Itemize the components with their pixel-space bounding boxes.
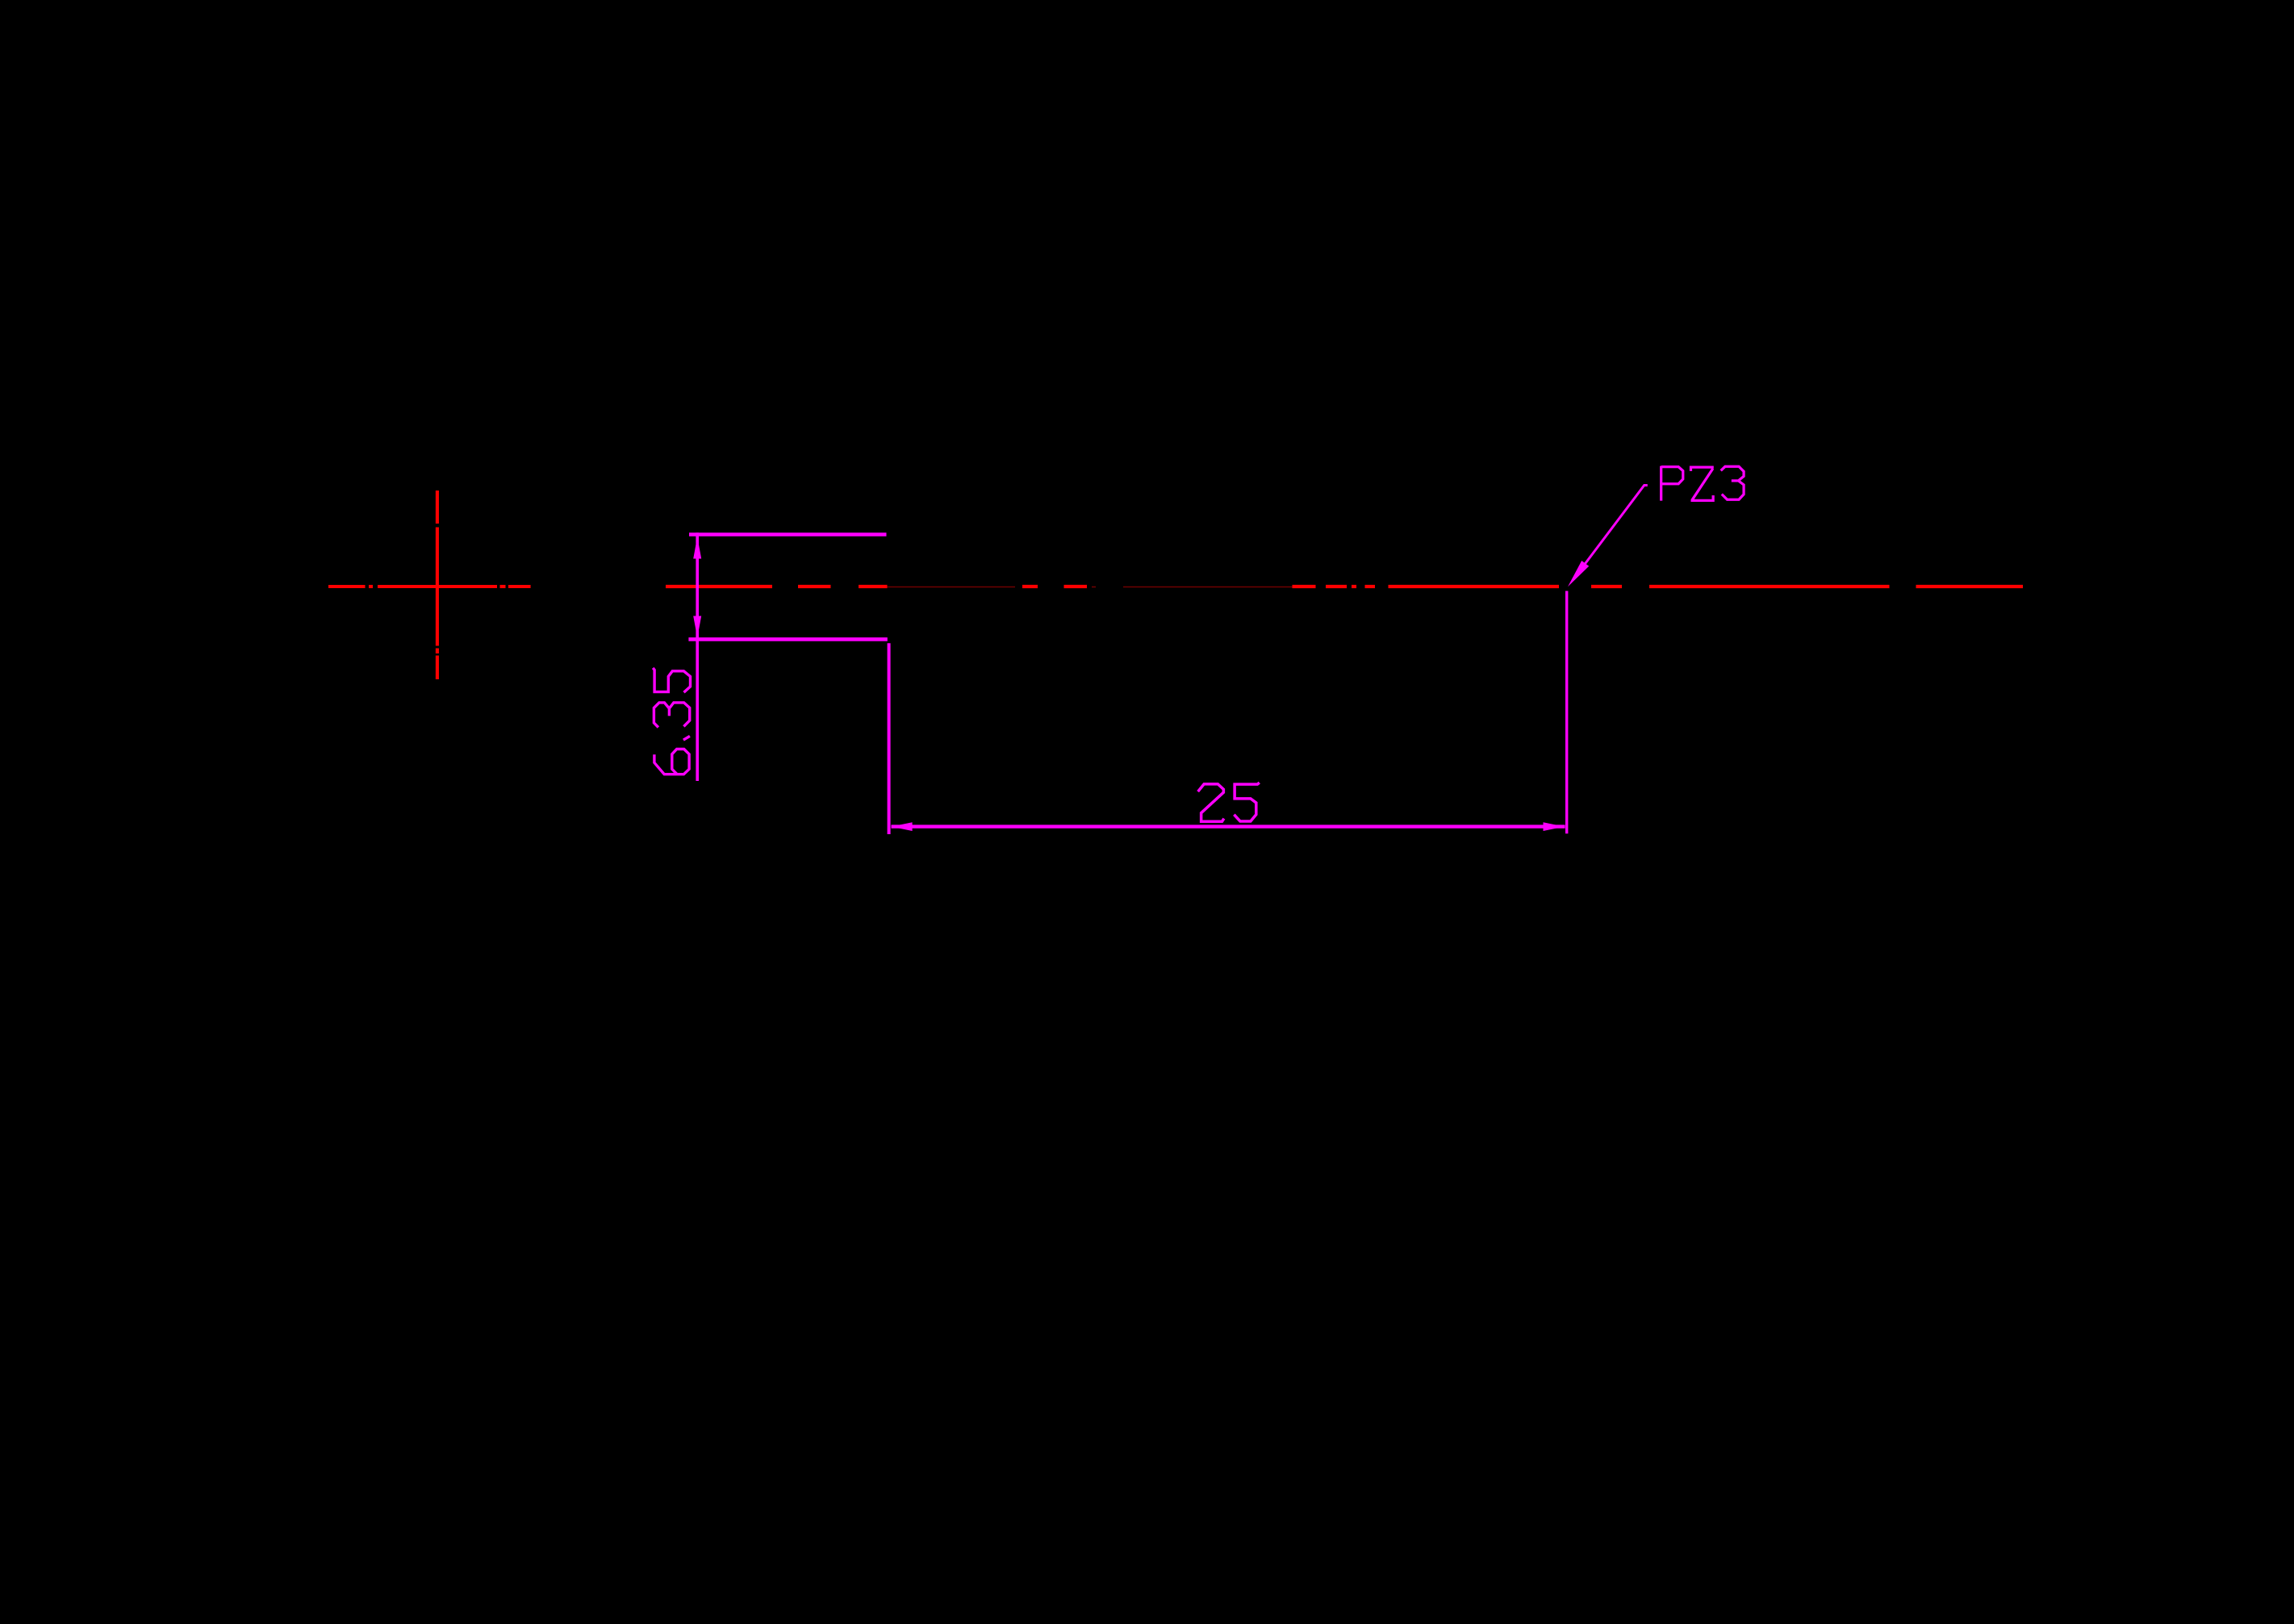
dim 6.35 bottom extension line [688, 637, 887, 641]
dim 6.35 up arrowhead [693, 537, 701, 559]
label PZ3 text [1661, 466, 1744, 501]
dim 25 left extension line [888, 643, 891, 834]
dim 25 dimension line [892, 825, 1565, 828]
faint thin centerline segments [888, 587, 1293, 588]
dim 25 right extension line [1565, 591, 1568, 834]
dim 6.35 top extension line [689, 532, 887, 536]
main red centerline dashes y=727 [666, 585, 2023, 588]
dim 6.35 text rotated [653, 668, 690, 774]
leader line PZ3 [1585, 486, 1648, 566]
dim 25 right arrowhead [1544, 822, 1565, 831]
dim 25 text [1198, 783, 1260, 821]
leader arrowhead PZ3 [1568, 561, 1589, 587]
centerline cross vertical arm (red dash-dot) [436, 491, 439, 679]
dim 6.35 dimension line vertical [696, 532, 699, 781]
centerline cross horizontal arm (red dash-dot) [328, 585, 531, 588]
dim 6.35 down arrowhead [693, 616, 701, 638]
dim 25 left arrowhead [892, 822, 913, 831]
